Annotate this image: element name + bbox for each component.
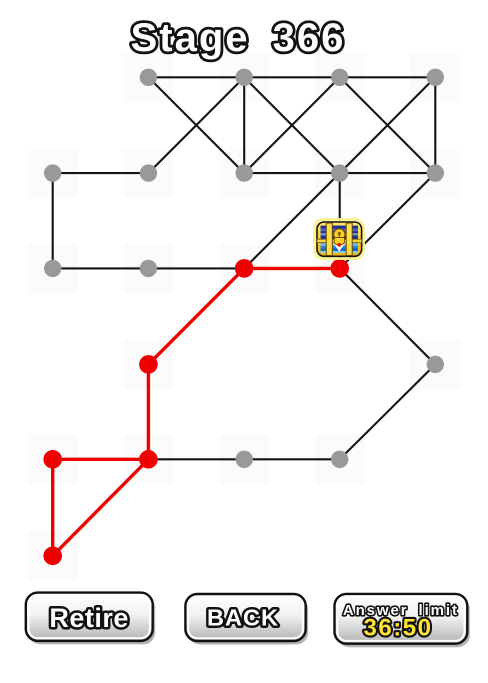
svg-text:36:50: 36:50 [364,615,433,642]
node c2r1 [236,164,253,181]
wire red c1r4-c0r4 [53,458,149,461]
wire c2r0-c2r1 [243,77,245,173]
wire c3r0-c4r1 [340,77,436,173]
svg-text:BACK: BACK [207,605,279,631]
wire c4r0-c3r1 [340,77,436,173]
node c3r1 [331,164,348,181]
wire c1r2-c2r2 [148,267,244,269]
tile c0r1 [28,148,78,198]
wire c3r1-c2r2 [244,173,340,268]
node red c1r3 [139,355,158,374]
node c3r4 [331,451,348,468]
wire red c2r2-c1r3 [148,268,244,364]
wire c1r0-c2r1 [148,77,244,173]
tile c3r4 [315,434,365,484]
node red c2r2 [235,259,254,278]
wire red c2r2-c3r2 [244,267,340,270]
treasure chest icon [313,218,365,260]
node c4r0 [427,69,444,86]
tile c2r1 [219,148,269,198]
wire c3r0-c2r1 [244,77,340,173]
node red c3r2 [330,259,349,278]
node c1r1 [140,164,157,181]
tile c2r0 [219,52,269,102]
wire c3r0-c4r0 [340,76,436,78]
wire c3r1-c4r1 [340,172,436,174]
tile c4r0 [410,52,460,102]
tile c4r3 [410,339,460,389]
wire c2r0-c3r1 [244,77,340,173]
wire c0r1-c0r2 [52,173,54,268]
wire c2r0-c1r1 [148,77,244,173]
wire c1r0-c2r0 [148,76,244,78]
tile c3r2 [315,243,365,293]
button BACK [185,594,308,645]
wire c4r1-c3r2 [340,173,436,268]
node red c1r4 [139,450,158,469]
wire c2r0-c3r0 [244,76,340,78]
tile c1r4 [123,434,173,484]
wire red c0r5-c1r4 [53,459,149,556]
wire red c1r3-c1r4 [147,364,150,459]
tile c1r2 [123,243,173,293]
node c1r2 [140,260,157,277]
node c2r4 [236,451,253,468]
wire c2r1-c3r1 [244,172,340,174]
tile c1r0 [123,52,173,102]
node c4r3 [427,356,444,373]
button Retire [26,593,155,645]
wire c0r2-c1r2 [53,267,149,269]
tile c3r0 [315,52,365,102]
tile c1r1 [123,148,173,198]
tile c4r1 [410,148,460,198]
wire c1r4-c2r4 [148,458,244,460]
wire c4r3-c3r4 [340,364,436,459]
wire c2r4-c3r4 [244,458,340,460]
tile c0r5 [28,531,78,581]
node c3r0 [331,69,348,86]
node c2r0 [236,69,253,86]
svg-text:Stage 366: Stage 366 [131,16,346,60]
node c0r1 [44,164,61,181]
tile c2r2 [219,243,269,293]
node c0r2 [44,260,61,277]
wire c0r1-c1r1 [53,172,149,174]
answer limit panel [335,594,470,647]
wire c4r0-c4r1 [434,77,436,173]
node c4r1 [427,164,444,181]
wire c3r2-c4r3 [340,268,436,364]
tile c0r4 [28,434,78,484]
node red c0r5 [43,547,62,566]
tile c0r2 [28,243,78,293]
wire red c0r4-c0r5 [51,459,54,556]
node red c0r4 [43,450,62,469]
wire c3r1-c3r2 [339,173,341,268]
tile c2r4 [219,434,269,484]
node c1r0 [140,69,157,86]
tile c1r3 [123,339,173,389]
tile c3r1 [315,148,365,198]
svg-text:Retire: Retire [49,603,129,633]
